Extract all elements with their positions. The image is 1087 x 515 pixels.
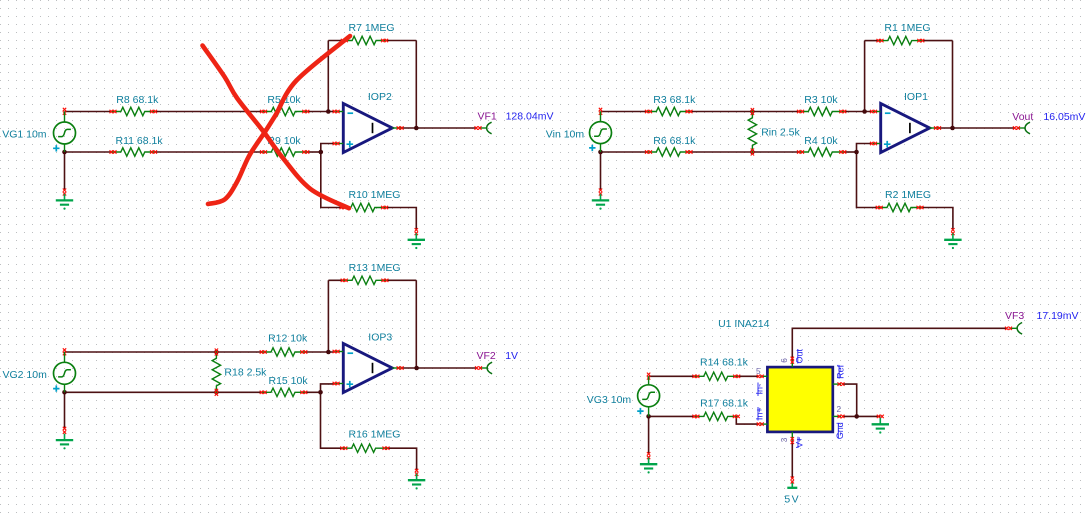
wire V+ pin down to 5V supply [791, 441, 793, 479]
resistor R9 (R9 10k) [260, 148, 309, 156]
junction node Ref/Gnd node [854, 414, 859, 419]
wire R14 to In- pin [737, 375, 759, 377]
wire R11 to R9 [154, 151, 264, 153]
pin marker VG2 top pin [63, 348, 66, 355]
voltage probe VF3 [1005, 323, 1022, 335]
pin marker U1 Out [791, 357, 794, 364]
svg-text:16.05mV: 16.05mV [1043, 111, 1085, 123]
pin marker R16 ground pin [415, 469, 418, 476]
pin marker VG1 ground pin [63, 189, 66, 196]
resistor R10 (R10 1MEG) [340, 203, 389, 211]
svg-text:R3 10k: R3 10k [804, 94, 838, 106]
wire VG3 top to R14 [649, 375, 696, 377]
svg-text:R11 68.1k: R11 68.1k [116, 135, 164, 147]
wire Rin top to R3 10k [752, 111, 800, 113]
resistor R15 (R15 10k) [260, 388, 308, 396]
svg-text:R16 1MEG: R16 1MEG [349, 428, 401, 440]
plus sign of VG2 [53, 385, 59, 391]
junction node VG3 plus node [646, 414, 651, 419]
pin marker R2 ground pin [951, 228, 954, 235]
svg-text:IOP1: IOP1 [904, 91, 928, 103]
pin marker U1 Ref [838, 382, 845, 385]
wire R3 to Rin top node [689, 111, 752, 113]
plus sign of VG3 [637, 408, 643, 414]
wire node to IOP3 + input [321, 384, 335, 392]
U1 pin In+ stub [760, 423, 767, 425]
annotation: red X stroke 2 (top-right to bottom-left) [208, 36, 350, 204]
svg-text:5V: 5V [784, 494, 800, 506]
junction node IOP1 inverting node [862, 109, 867, 114]
svg-text:IOP3: IOP3 [368, 331, 392, 343]
junction node R18 top node [214, 350, 219, 355]
wire feedback right leg down to output node [415, 280, 417, 368]
junction node VG2 plus node [62, 390, 67, 395]
voltage probe VF1 [475, 122, 492, 134]
wire node B to IOP2 + input [321, 144, 335, 153]
wire R5 to IOP2 inverting input node [306, 111, 335, 113]
junction node noninverting input node [319, 150, 324, 155]
wire IOP3 output to probe VF2 [401, 367, 476, 369]
svg-text:VF1: VF1 [478, 110, 497, 122]
junction node IOP3 inverting node [326, 350, 331, 355]
svg-text:17.19mV: 17.19mV [1037, 310, 1079, 322]
junction node IOP1 noninverting node [854, 150, 859, 155]
wire R6 to Rin bottom node [689, 151, 752, 153]
wire feedback right leg down to output node [952, 41, 954, 128]
pin label U1 In+ [755, 407, 765, 421]
resistor R11 (R11 68.1k) [110, 148, 158, 156]
svg-text:Gnd: Gnd [835, 422, 845, 439]
wire R15 to noninverting node [304, 391, 321, 393]
voltage source VG3 (VG3 10m) [638, 376, 660, 416]
wire R18 node to R12 [216, 351, 263, 353]
resistor R4 (R4 10k) [797, 148, 846, 156]
junction node output node VF2 [414, 366, 419, 371]
U1 pin 2 Gnd stub [833, 415, 841, 417]
resistor R12 (R12 10k) [260, 348, 308, 356]
wire R17 down to In+ pin [736, 416, 758, 424]
wire R2 to ground leg [920, 208, 953, 230]
wire VG1 to ground stem [64, 152, 66, 190]
svg-text:R4 10k: R4 10k [804, 135, 838, 147]
wire Rin bottom to R4 [752, 151, 800, 153]
svg-text:R14 68.1k: R14 68.1k [700, 357, 749, 369]
wire Vin to ground stem [600, 152, 602, 190]
junction node Rin top node [750, 109, 755, 114]
wire feedback top left to R7 [328, 40, 344, 42]
resistor R1 (R1 1MEG) [877, 36, 925, 44]
svg-text:VG1 10m: VG1 10m [2, 129, 47, 141]
svg-text:R8 68.1k: R8 68.1k [116, 94, 159, 106]
wire R4 to noninverting node [843, 151, 857, 153]
voltage source VG2 (VG2 10m) [54, 352, 76, 392]
wire node B down to R10 [321, 152, 345, 208]
svg-text:6: 6 [780, 358, 789, 363]
svg-text:Ref: Ref [836, 364, 846, 379]
svg-text:3: 3 [780, 437, 789, 442]
wire Gnd pin to ground [842, 415, 880, 417]
wire VG1 top to R8 [65, 111, 114, 113]
junction node inverting input node [326, 109, 331, 114]
U1 pin 3 V+ stub [791, 432, 793, 441]
wire VG2 to ground stem [64, 392, 66, 428]
pin marker U1 V+ [791, 437, 794, 444]
svg-text:VG3 10m: VG3 10m [587, 394, 632, 406]
resistor R3b (R3 10k) [797, 107, 846, 115]
pin marker VG3 top pin [647, 373, 650, 380]
pin marker 5V pin [791, 477, 794, 484]
resistor R5 (R5 10k) [260, 107, 309, 115]
wire IOP1 output to probe Vout [938, 127, 1015, 129]
svg-text:R2 1MEG: R2 1MEG [885, 189, 931, 201]
svg-text:Out: Out [794, 349, 804, 364]
svg-text:V+: V+ [795, 437, 805, 448]
pin marker U1 In- [757, 375, 764, 378]
junction node VG1 plus node [62, 150, 67, 155]
pin label U1 In- [755, 383, 765, 397]
svg-text:U1 INA214: U1 INA214 [718, 318, 770, 330]
voltage source VG1 (VG1 10m) [54, 112, 76, 153]
resistor Rin (Rin 2.5k) [748, 108, 756, 156]
svg-text:R6 68.1k: R6 68.1k [653, 135, 696, 147]
pin marker ground wire end [877, 415, 884, 418]
wire R1 to right leg [921, 40, 953, 42]
wire node down to R16 [321, 392, 344, 448]
wire node up to R1 feedback [864, 41, 866, 112]
wire VG1 plus to R11 [65, 151, 114, 153]
ground at U1 Gnd/Ref [872, 418, 889, 434]
pin marker Vin ground pin [599, 189, 602, 196]
wire VG3 plus to R17 [649, 415, 696, 417]
ground below VG1 [56, 194, 73, 210]
svg-text:Vout: Vout [1012, 111, 1033, 123]
svg-text:R17 68.1k: R17 68.1k [700, 397, 749, 409]
IC U1 INA214 body [767, 367, 832, 432]
ground below VG3 [640, 458, 657, 474]
wire VG3 to ground stem [648, 416, 650, 453]
pin marker VG1 top pin [63, 108, 66, 115]
svg-text:VF3: VF3 [1005, 310, 1024, 322]
pin marker U1 Gnd [838, 415, 845, 418]
plus sign of VG1 [53, 145, 59, 151]
svg-text:R12 10k: R12 10k [268, 333, 308, 345]
svg-text:Vin 10m: Vin 10m [546, 129, 585, 141]
svg-text:VG2 10m: VG2 10m [3, 369, 48, 381]
junction node output node VF1 [414, 126, 419, 131]
svg-text:IOP2: IOP2 [368, 91, 392, 103]
wire node down to R2 [857, 152, 880, 208]
svg-text:R3 68.1k: R3 68.1k [653, 94, 696, 106]
annotation: red X stroke 1 (top-left to bottom-right) [203, 46, 349, 209]
junction node Vin plus node [598, 150, 603, 155]
resistor R14 (R14 68.1k) [692, 372, 740, 380]
resistor R18 (R18 2.5k) [212, 349, 220, 396]
U1 pin 5 In- stub [760, 375, 767, 377]
ground below VG2 [56, 434, 73, 450]
pin label U1 V+ [795, 437, 805, 448]
resistor R2 (R2 1MEG) [876, 203, 924, 211]
wire Out pin up and right to probe VF3 [792, 328, 1007, 360]
U1 pin Ref stub [833, 383, 841, 385]
junction node IOP3 noninverting node [318, 390, 323, 395]
op-amp IOP3 [333, 344, 404, 393]
wire node A up to R7 feedback [327, 41, 329, 112]
svg-text:R13 1MEG: R13 1MEG [349, 262, 401, 274]
voltage source Vin (Vin 10m) [590, 112, 612, 153]
svg-text:R1 1MEG: R1 1MEG [884, 22, 930, 34]
pin marker VG3 ground pin [647, 452, 650, 459]
wire feedback top left to R1 [865, 40, 880, 42]
svg-text:1V: 1V [505, 350, 518, 362]
svg-text:5: 5 [756, 367, 761, 376]
resistor R8 (R8 68.1k) [110, 107, 158, 115]
pin label U1 Out [794, 349, 804, 364]
junction node R18 bottom node [214, 390, 219, 395]
junction node output node Vout [950, 126, 955, 131]
resistor R16 (R16 1MEG) [340, 444, 389, 452]
wire node up to R13 [327, 280, 329, 352]
5V supply terminal [787, 482, 797, 488]
wire R16 to ground leg [386, 448, 417, 470]
resistor R17 (R17 68.1k) [692, 412, 739, 420]
ground below R16 [408, 474, 425, 490]
wire R9 to noninverting node [306, 151, 321, 153]
wire node to IOP1 + input [857, 144, 872, 153]
svg-text:In+: In+ [755, 407, 765, 420]
U1 pin 6 Out stub [791, 360, 793, 367]
voltage probe Vout [1013, 122, 1030, 134]
wire R13 to right leg [385, 279, 416, 281]
wire R18 node to R15 [216, 391, 263, 393]
wire Vin plus to R6 [601, 151, 649, 153]
wire feedback top left to R13 [328, 279, 344, 281]
wire R12 to IOP3 inverting node [304, 351, 335, 353]
plus sign of Vin [589, 145, 595, 151]
svg-text:128.04mV: 128.04mV [506, 110, 554, 122]
wire R7 to right leg [385, 40, 417, 42]
wire R3 10k to IOP1 inverting node [843, 111, 871, 113]
pin label U1 Ref [836, 364, 846, 379]
ground below R2 [944, 233, 961, 249]
wire R10 to ground leg [385, 208, 417, 230]
pin label U1 Gnd [835, 422, 845, 439]
svg-text:2: 2 [836, 405, 841, 414]
svg-text:R18 2.5k: R18 2.5k [224, 367, 267, 379]
svg-text:VF2: VF2 [477, 350, 496, 362]
pin marker U1 In+ [757, 422, 764, 425]
resistor R3a (R3 68.1k) [645, 107, 693, 115]
wire R8 to R5 [154, 111, 264, 113]
wire Vin top to R3 [601, 111, 649, 113]
wire IOP2 output to probe VF1 [401, 127, 477, 129]
wire feedback right leg down to output node [415, 41, 417, 129]
resistor R6 (R6 68.1k) [645, 148, 693, 156]
resistor R7 (R7 1MEG) [341, 36, 388, 44]
wire VG2 plus to R18 bottom node [65, 391, 217, 393]
op-amp IOP2 [333, 104, 404, 153]
svg-text:R15 10k: R15 10k [269, 375, 309, 387]
pin marker R10 ground pin [415, 228, 418, 235]
svg-text:R10 1MEG: R10 1MEG [349, 189, 401, 201]
voltage probe VF2 [475, 362, 492, 374]
svg-text:Rin 2.5k: Rin 2.5k [761, 127, 800, 139]
op-amp IOP1 [870, 104, 941, 153]
wire Ref pin to Gnd net [842, 384, 856, 416]
resistor R13 (R13 1MEG) [341, 276, 389, 284]
junction node Rin bottom node [750, 150, 755, 155]
wire VG2 top to R18 node [65, 351, 217, 353]
ground below Vin [592, 194, 609, 210]
ground below R10 [408, 233, 425, 249]
pin marker Vin top pin [599, 108, 602, 115]
svg-text:R7 1MEG: R7 1MEG [349, 22, 395, 34]
svg-text:In-: In- [755, 384, 765, 395]
pin marker VG2 ground pin [63, 427, 66, 434]
